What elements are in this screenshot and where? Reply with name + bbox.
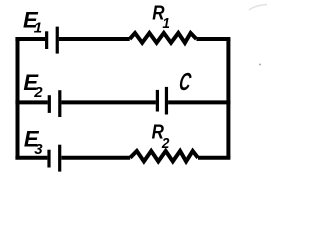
svg-text:2: 2 — [161, 135, 170, 152]
svg-text:1: 1 — [34, 20, 42, 37]
svg-text:3: 3 — [34, 141, 43, 158]
svg-text:C: C — [177, 69, 193, 96]
svg-text:1: 1 — [162, 16, 170, 33]
svg-text:2: 2 — [33, 84, 43, 101]
